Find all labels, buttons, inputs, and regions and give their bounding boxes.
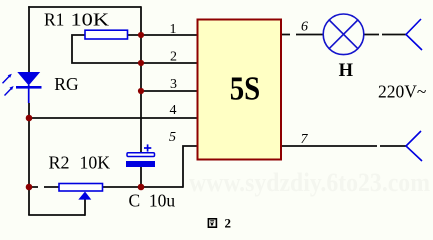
svg-text:5: 5	[169, 130, 176, 145]
lamp H	[323, 14, 364, 55]
wire pin 7	[281, 145, 406, 147]
light arrow 2	[5, 86, 14, 96]
wire R2 right lead / bottom horizontal	[103, 186, 184, 188]
wire pin 2	[141, 62, 198, 64]
svg-text:R2: R2	[49, 153, 70, 173]
junction dot capacitor bottom	[138, 184, 145, 191]
wire R2 left lead	[29, 186, 59, 188]
svg-text:RG: RG	[54, 74, 79, 94]
svg-text:7: 7	[301, 132, 309, 147]
photodiode RG	[16, 72, 42, 103]
svg-text:1: 1	[170, 22, 177, 37]
junction dot left frame pin4	[26, 115, 33, 122]
IC U1 5S box	[198, 20, 282, 160]
wire left frame lower vertical	[28, 103, 30, 215]
svg-text:C 10u: C 10u	[129, 191, 176, 211]
svg-text:5S: 5S	[230, 71, 261, 108]
svg-text:10K: 10K	[80, 153, 111, 173]
wire lamp right	[364, 34, 406, 36]
wire R1 left lead U-shape	[72, 35, 141, 63]
connector chevron top (220V terminal)	[406, 19, 422, 50]
wire pin 4	[29, 117, 198, 119]
wire top frame horizontal	[28, 6, 141, 8]
junction dot pin2/bus	[138, 60, 144, 66]
svg-text:H: H	[339, 61, 354, 81]
wire left frame upper vertical	[28, 6, 30, 72]
svg-text:6: 6	[301, 20, 308, 35]
wire pin 6	[281, 34, 323, 36]
svg-text:4: 4	[170, 103, 177, 118]
wire pin 1 (R1 right lead to IC)	[128, 34, 198, 36]
junction dot left frame R2	[26, 184, 33, 191]
wire vertical bus	[140, 6, 142, 153]
svg-text:3: 3	[170, 77, 177, 92]
caption 图 2	[208, 216, 231, 231]
wire pin 5 riser	[183, 146, 198, 188]
svg-text:R1: R1	[44, 9, 64, 29]
capacitor C (electrolytic)	[126, 144, 155, 167]
svg-text:10K: 10K	[71, 9, 110, 29]
wire wiper stem vertical	[84, 200, 86, 216]
junction dot pin1/bus	[138, 32, 144, 38]
svg-text:220V~: 220V~	[378, 82, 426, 102]
svg-text:www.sydzdiy.6to23.com: www.sydzdiy.6to23.com	[189, 168, 430, 197]
connector chevron bottom (220V terminal)	[406, 131, 422, 161]
potentiometer R2	[59, 184, 103, 200]
junction dot pin3/bus	[138, 88, 144, 94]
resistor R1	[85, 30, 128, 39]
svg-text:2: 2	[170, 50, 177, 65]
svg-text:2: 2	[225, 216, 232, 231]
wire bottom loop horizontal	[28, 214, 85, 216]
light arrow 1	[3, 74, 12, 84]
wire capacitor bottom lead	[140, 167, 142, 187]
wire pin 3	[141, 90, 198, 92]
